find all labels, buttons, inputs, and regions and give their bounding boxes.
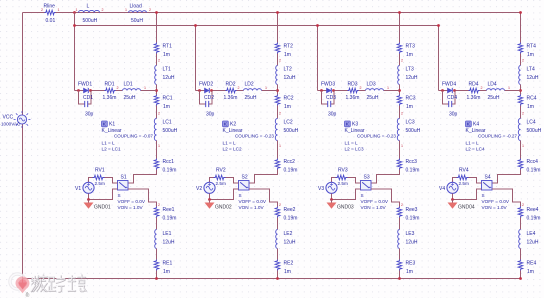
svg-text:VON = 1.0V: VON = 1.0V bbox=[118, 205, 144, 210]
resistor Rcc3 bbox=[397, 159, 402, 170]
wire drop cell 2 bbox=[195, 26, 197, 91]
wire S2 to Ree2 bbox=[249, 189, 278, 207]
svg-text:LE2: LE2 bbox=[284, 231, 293, 237]
diode FWD1 bbox=[84, 88, 89, 93]
wire left rail bbox=[22, 13, 24, 279]
svg-text:RV1: RV1 bbox=[95, 168, 105, 174]
junction diode cathode bbox=[453, 89, 456, 92]
wire S1 to Ree1 bbox=[128, 189, 157, 207]
watermark text (hand-drawn CJK strokes) bbox=[32, 276, 46, 292]
svg-text:RV4: RV4 bbox=[459, 168, 469, 174]
switch S2 bbox=[239, 181, 250, 191]
svg-text:LT2: LT2 bbox=[284, 67, 292, 73]
svg-text:500uH: 500uH bbox=[163, 128, 178, 134]
inductor LC1 bbox=[154, 119, 156, 141]
junction top rail cell 3 bbox=[398, 11, 401, 14]
resistor RV4 bbox=[457, 175, 469, 180]
svg-text:LE3: LE3 bbox=[406, 231, 415, 237]
svg-text:LC4: LC4 bbox=[527, 120, 536, 126]
svg-text:COUPLING = -0.07: COUPLING = -0.07 bbox=[114, 134, 153, 139]
svg-text:VON = 1.0V: VON = 1.0V bbox=[361, 205, 387, 210]
junction V4 ground bbox=[451, 198, 454, 201]
svg-text:0.19m: 0.19m bbox=[163, 216, 177, 222]
junction bottom rail cell 3 bbox=[398, 277, 401, 280]
junction rail2 cell 2 bbox=[194, 24, 197, 27]
svg-text:0.01: 0.01 bbox=[46, 18, 56, 24]
svg-text:S3: S3 bbox=[364, 175, 370, 181]
junction diode anode bbox=[198, 89, 201, 92]
svg-text:RD1: RD1 bbox=[105, 82, 115, 88]
svg-text:K4: K4 bbox=[473, 122, 479, 128]
svg-text:2: 2 bbox=[238, 86, 240, 90]
wire drop cell 1 bbox=[74, 13, 76, 91]
svg-text:1: 1 bbox=[387, 86, 389, 90]
inductor LT3 bbox=[398, 66, 400, 85]
inductor LD2 bbox=[244, 89, 262, 91]
junction diode cathode bbox=[210, 89, 213, 92]
resistor RE2 bbox=[275, 260, 280, 271]
svg-text:L1 = L: L1 = L bbox=[102, 141, 116, 146]
wire Rcc3 to switch S3 bbox=[361, 170, 400, 184]
resistor RE1 bbox=[154, 260, 159, 271]
wire distribution rail bbox=[75, 25, 439, 27]
svg-text:RC3: RC3 bbox=[406, 96, 416, 102]
svg-text:CD2: CD2 bbox=[204, 95, 214, 101]
svg-text:1m: 1m bbox=[284, 269, 291, 275]
junction bottom rail cell 2 bbox=[276, 277, 279, 280]
svg-text:Lload: Lload bbox=[130, 4, 142, 10]
svg-text:LD2: LD2 bbox=[245, 82, 254, 88]
ground GND03 bbox=[327, 200, 337, 209]
wire LC3-Rcc3 bbox=[399, 141, 401, 159]
svg-text:LT3: LT3 bbox=[406, 67, 414, 73]
resistor RV1 bbox=[93, 175, 105, 180]
junction FWD branch cell 1 bbox=[155, 89, 158, 92]
svg-text:25uH: 25uH bbox=[124, 95, 136, 101]
inductor LT2 bbox=[276, 66, 278, 85]
svg-text:25uH: 25uH bbox=[488, 95, 500, 101]
resistor Rcc4 bbox=[518, 159, 523, 170]
resistor RD2 bbox=[226, 88, 237, 93]
svg-text:S: S bbox=[239, 193, 242, 198]
resistor RD1 bbox=[105, 88, 116, 93]
wire column 2 top bbox=[277, 13, 279, 43]
svg-text:1m: 1m bbox=[406, 269, 413, 275]
wire drop cell 4 bbox=[438, 26, 440, 91]
wire capacitor loop bbox=[443, 91, 456, 105]
inductor LD3 bbox=[366, 89, 384, 91]
svg-text:S2: S2 bbox=[242, 175, 248, 181]
wire V2 top bbox=[210, 178, 214, 183]
svg-text:LD4: LD4 bbox=[488, 82, 497, 88]
wire RE2 to bottom rail bbox=[277, 271, 279, 279]
svg-text:RT1: RT1 bbox=[163, 44, 173, 50]
svg-text:1m: 1m bbox=[284, 52, 291, 58]
svg-text:2: 2 bbox=[522, 203, 524, 207]
svg-text:12uH: 12uH bbox=[406, 75, 418, 81]
junction diode anode bbox=[441, 89, 444, 92]
wire Ree4-LE4 bbox=[520, 218, 522, 230]
svg-text:CD1: CD1 bbox=[83, 95, 93, 101]
junction input node bbox=[73, 11, 76, 14]
svg-text:2: 2 bbox=[401, 203, 403, 207]
svg-text:RC1: RC1 bbox=[163, 96, 173, 102]
wire capacitor loop bbox=[200, 91, 213, 105]
svg-text:L2 = LC3: L2 = LC3 bbox=[345, 147, 365, 152]
svg-text:500uH: 500uH bbox=[284, 128, 299, 134]
svg-text:1m: 1m bbox=[163, 104, 170, 110]
svg-text:1: 1 bbox=[158, 144, 160, 148]
svg-text:500uH: 500uH bbox=[83, 18, 98, 24]
junction V3 ground bbox=[330, 198, 333, 201]
svg-text:S: S bbox=[118, 193, 121, 198]
inductor LC4 bbox=[518, 119, 520, 141]
junction diode anode bbox=[77, 89, 80, 92]
svg-text:S: S bbox=[482, 193, 485, 198]
resistor Rcc1 bbox=[154, 159, 159, 170]
svg-text:GND03: GND03 bbox=[337, 205, 354, 211]
svg-text:LE4: LE4 bbox=[527, 231, 536, 237]
svg-text:V1: V1 bbox=[75, 186, 81, 192]
svg-text:CD3: CD3 bbox=[326, 95, 336, 101]
svg-text:2: 2 bbox=[279, 112, 281, 116]
wire LE4-RE4 bbox=[520, 249, 522, 260]
wire LT2-node bbox=[277, 85, 279, 95]
svg-text:COUPLING = -0.27: COUPLING = -0.27 bbox=[478, 134, 517, 139]
svg-text:1: 1 bbox=[508, 86, 510, 90]
svg-text:CD4: CD4 bbox=[447, 95, 457, 101]
svg-text:V4: V4 bbox=[439, 186, 445, 192]
wire RC4-LC4 bbox=[520, 106, 522, 119]
wire Rcc1 to switch S1 bbox=[118, 170, 157, 184]
svg-text:LT1: LT1 bbox=[163, 67, 171, 73]
resistor RE3 bbox=[397, 260, 402, 271]
svg-text:RV2: RV2 bbox=[216, 168, 226, 174]
inductor LD1 bbox=[123, 89, 141, 91]
svg-text:0.19m: 0.19m bbox=[284, 216, 298, 222]
junction rail2 cell 3 bbox=[316, 24, 319, 27]
junction FWD branch cell 4 bbox=[519, 89, 522, 92]
wire FWD branch cell 2 bbox=[196, 90, 278, 92]
svg-text:FWD1: FWD1 bbox=[78, 82, 92, 88]
wire V3 minus to S3 bbox=[332, 189, 361, 200]
resistor Rline bbox=[45, 10, 56, 15]
svg-text:1000VAC: 1000VAC bbox=[1, 122, 21, 127]
junction top rail cell 2 bbox=[276, 11, 279, 14]
svg-text:L2 = LC1: L2 = LC1 bbox=[102, 147, 122, 152]
svg-text:12uH: 12uH bbox=[406, 240, 418, 246]
svg-text:2: 2 bbox=[360, 86, 362, 90]
resistor RV2 bbox=[214, 175, 226, 180]
svg-text:2: 2 bbox=[158, 203, 160, 207]
resistor RC2 bbox=[275, 95, 280, 106]
svg-text:1m: 1m bbox=[527, 269, 534, 275]
svg-text:1: 1 bbox=[125, 8, 127, 12]
svg-text:0.19m: 0.19m bbox=[527, 168, 541, 174]
svg-text:GND02: GND02 bbox=[215, 205, 232, 211]
junction diode anode bbox=[320, 89, 323, 92]
wire S3 to Ree3 bbox=[371, 189, 400, 207]
svg-text:Ree1: Ree1 bbox=[163, 207, 175, 213]
inductor LE1 bbox=[155, 230, 157, 249]
svg-text:RT4: RT4 bbox=[527, 44, 537, 50]
svg-text:Ree4: Ree4 bbox=[527, 207, 539, 213]
svg-text:VOFF = 0.0V: VOFF = 0.0V bbox=[118, 199, 146, 204]
diode FWD4 bbox=[448, 88, 453, 93]
svg-text:VOFF = 0.0V: VOFF = 0.0V bbox=[361, 199, 389, 204]
wire RE4 to bottom rail bbox=[520, 271, 522, 279]
svg-text:FWD3: FWD3 bbox=[321, 82, 335, 88]
junction bottom rail cell 4 bbox=[519, 277, 522, 280]
capacitor CD1 bbox=[85, 101, 88, 107]
voltage source V1 bbox=[83, 182, 94, 193]
svg-text:12uH: 12uH bbox=[284, 75, 296, 81]
wire LC2-Rcc2 bbox=[277, 141, 279, 159]
wire RT4-LT4 bbox=[520, 54, 522, 66]
svg-text:0.19m: 0.19m bbox=[406, 168, 420, 174]
svg-text:S4: S4 bbox=[485, 175, 491, 181]
svg-text:VON = 1.0V: VON = 1.0V bbox=[239, 205, 265, 210]
resistor RT2 bbox=[275, 43, 280, 54]
svg-text:K2: K2 bbox=[230, 122, 236, 128]
wire capacitor loop bbox=[79, 91, 92, 105]
coupling K4 icon bbox=[466, 121, 472, 127]
svg-text:0.19m: 0.19m bbox=[284, 168, 298, 174]
svg-text:1m: 1m bbox=[163, 52, 170, 58]
svg-text:2: 2 bbox=[401, 59, 403, 63]
svg-text:RD3: RD3 bbox=[348, 82, 358, 88]
coupling K3 icon bbox=[345, 121, 351, 127]
switch S4 bbox=[482, 181, 493, 191]
switch S3 bbox=[361, 181, 372, 191]
capacitor CD4 bbox=[449, 101, 452, 107]
junction V1 ground bbox=[87, 198, 90, 201]
svg-text:1.36m: 1.36m bbox=[103, 95, 117, 101]
svg-text:30p: 30p bbox=[328, 112, 337, 118]
svg-text:1: 1 bbox=[265, 86, 267, 90]
svg-text:Ree2: Ree2 bbox=[284, 207, 296, 213]
svg-text:RE3: RE3 bbox=[406, 261, 416, 267]
junction rail2 cell1 bbox=[73, 24, 76, 27]
svg-text:RE1: RE1 bbox=[163, 261, 173, 267]
wire Ree1-LE1 bbox=[156, 218, 158, 230]
voltage source VCC bbox=[14, 111, 31, 128]
resistor RT1 bbox=[154, 43, 159, 54]
svg-text:L2 = LC2: L2 = LC2 bbox=[223, 147, 243, 152]
svg-text:2.5m: 2.5m bbox=[459, 181, 470, 186]
svg-text:30p: 30p bbox=[85, 112, 94, 118]
svg-text:2: 2 bbox=[158, 59, 160, 63]
svg-text:2: 2 bbox=[117, 86, 119, 90]
svg-text:Rcc4: Rcc4 bbox=[527, 159, 539, 165]
svg-text:2: 2 bbox=[522, 59, 524, 63]
svg-text:FWD4: FWD4 bbox=[442, 82, 456, 88]
diode FWD3 bbox=[327, 88, 332, 93]
wire V3 top bbox=[332, 178, 336, 183]
resistor RD4 bbox=[469, 88, 480, 93]
junction top rail cell 4 bbox=[519, 11, 522, 14]
svg-text:0.19m: 0.19m bbox=[163, 168, 177, 174]
resistor Ree2 bbox=[275, 207, 280, 218]
svg-text:2.5m: 2.5m bbox=[95, 181, 106, 186]
svg-text:Rcc2: Rcc2 bbox=[284, 159, 296, 165]
wire top rail bbox=[23, 12, 521, 14]
svg-text:L1 = L: L1 = L bbox=[466, 141, 480, 146]
wire V1 top bbox=[89, 178, 93, 183]
svg-text:1m: 1m bbox=[406, 52, 413, 58]
wire LT1-node bbox=[156, 85, 158, 95]
svg-text:2: 2 bbox=[149, 8, 151, 12]
svg-text:2: 2 bbox=[522, 112, 524, 116]
svg-text:500uH: 500uH bbox=[527, 128, 542, 134]
svg-text:RE2: RE2 bbox=[284, 261, 294, 267]
wire RT2-LT2 bbox=[277, 54, 279, 66]
wire LE2-RE2 bbox=[277, 249, 279, 260]
svg-text:500uH: 500uH bbox=[406, 128, 421, 134]
diode FWD2 bbox=[205, 88, 210, 93]
inductor LE2 bbox=[276, 230, 278, 249]
svg-text:1m: 1m bbox=[163, 269, 170, 275]
wire LC1-Rcc1 bbox=[156, 141, 158, 159]
svg-text:1.36m: 1.36m bbox=[467, 95, 481, 101]
svg-text:RD4: RD4 bbox=[469, 82, 479, 88]
wire RT1-LT1 bbox=[156, 54, 158, 66]
svg-text:0.19m: 0.19m bbox=[406, 216, 420, 222]
svg-text:2: 2 bbox=[41, 8, 43, 12]
svg-text:12uH: 12uH bbox=[163, 240, 175, 246]
wire V4 top bbox=[453, 178, 457, 183]
watermark logo bbox=[10, 274, 30, 297]
svg-text:GND01: GND01 bbox=[94, 205, 111, 211]
svg-text:L1 = L: L1 = L bbox=[223, 141, 237, 146]
resistor RC1 bbox=[154, 95, 159, 106]
wire Ree3-LE3 bbox=[399, 218, 401, 230]
svg-text:1: 1 bbox=[58, 8, 60, 12]
wire LT4-node bbox=[520, 85, 522, 95]
wire V1 minus to S1 bbox=[89, 189, 118, 200]
svg-text:12uH: 12uH bbox=[284, 240, 296, 246]
voltage source V4 bbox=[447, 182, 458, 193]
junction diode cathode bbox=[332, 89, 335, 92]
svg-text:GND04: GND04 bbox=[458, 205, 475, 211]
inductor LC2 bbox=[275, 119, 277, 141]
capacitor CD3 bbox=[328, 101, 331, 107]
inductor LC3 bbox=[397, 119, 399, 141]
svg-text:LD3: LD3 bbox=[367, 82, 376, 88]
inductor LT4 bbox=[519, 66, 521, 85]
svg-text:Rline: Rline bbox=[44, 4, 56, 10]
wire RV1 to S1 bbox=[105, 178, 118, 184]
svg-text:RT2: RT2 bbox=[284, 44, 294, 50]
svg-text:VOFF = 0.0V: VOFF = 0.0V bbox=[239, 199, 267, 204]
svg-text:2: 2 bbox=[158, 112, 160, 116]
resistor RC4 bbox=[518, 95, 523, 106]
svg-text:2: 2 bbox=[279, 59, 281, 63]
resistor Ree1 bbox=[154, 207, 159, 218]
inductor LE3 bbox=[398, 230, 400, 249]
wire column 4 top bbox=[520, 13, 522, 43]
svg-text:1m: 1m bbox=[284, 104, 291, 110]
svg-text:LC3: LC3 bbox=[406, 120, 415, 126]
coupling K2 icon bbox=[223, 121, 229, 127]
junction bottom rail cell 1 bbox=[155, 277, 158, 280]
coupling K1 icon bbox=[102, 121, 108, 127]
svg-text:L: L bbox=[87, 4, 90, 10]
wire RV4 to S4 bbox=[469, 178, 482, 184]
wire bottom rail bbox=[23, 278, 521, 280]
svg-text:RC4: RC4 bbox=[527, 96, 537, 102]
svg-text:L2 = LC4: L2 = LC4 bbox=[466, 147, 486, 152]
wire LE3-RE3 bbox=[399, 249, 401, 260]
svg-text:LC2: LC2 bbox=[284, 120, 293, 126]
wire Ree2-LE2 bbox=[277, 218, 279, 230]
wire FWD branch cell 3 bbox=[318, 90, 400, 92]
svg-text:LD1: LD1 bbox=[124, 82, 133, 88]
ground GND02 bbox=[205, 200, 215, 209]
wire column 3 top bbox=[399, 13, 401, 43]
svg-text:Rcc1: Rcc1 bbox=[163, 159, 175, 165]
wire FWD branch cell 1 bbox=[75, 90, 157, 92]
junction diode cathode bbox=[89, 89, 92, 92]
svg-text:FWD2: FWD2 bbox=[199, 82, 213, 88]
svg-text:LE1: LE1 bbox=[163, 231, 172, 237]
resistor Ree4 bbox=[518, 207, 523, 218]
capacitor CD2 bbox=[206, 101, 209, 107]
wire RV2 to S2 bbox=[226, 178, 239, 184]
svg-text:0.19m: 0.19m bbox=[527, 216, 541, 222]
svg-text:RD2: RD2 bbox=[226, 82, 236, 88]
ground 0 bbox=[18, 279, 29, 297]
junction FWD branch cell 3 bbox=[398, 89, 401, 92]
svg-text:2: 2 bbox=[401, 112, 403, 116]
svg-text:1: 1 bbox=[76, 8, 78, 12]
svg-text:2: 2 bbox=[481, 86, 483, 90]
wire drop cell 3 bbox=[317, 26, 319, 91]
wire RT3-LT3 bbox=[399, 54, 401, 66]
svg-text:S: S bbox=[361, 193, 364, 198]
svg-text:1: 1 bbox=[279, 144, 281, 148]
resistor Rcc2 bbox=[275, 159, 280, 170]
junction rail2 cell 4 bbox=[437, 24, 440, 27]
wire RE3 to bottom rail bbox=[399, 271, 401, 279]
svg-text:1: 1 bbox=[522, 144, 524, 148]
svg-text:COUPLING = -0.23: COUPLING = -0.23 bbox=[235, 134, 274, 139]
wire RC2-LC2 bbox=[277, 106, 279, 119]
resistor RE4 bbox=[518, 260, 523, 271]
svg-text:2.5m: 2.5m bbox=[338, 181, 349, 186]
wire RE1 to bottom rail bbox=[156, 271, 158, 279]
svg-text:2: 2 bbox=[279, 203, 281, 207]
svg-text:LC1: LC1 bbox=[163, 120, 172, 126]
svg-text:RC2: RC2 bbox=[284, 96, 294, 102]
resistor RV3 bbox=[336, 175, 348, 180]
svg-text:1m: 1m bbox=[527, 52, 534, 58]
svg-text:30p: 30p bbox=[206, 112, 215, 118]
wire Rcc4 to switch S4 bbox=[482, 170, 521, 184]
wire FWD branch cell 4 bbox=[439, 90, 521, 92]
ground GND04 bbox=[448, 200, 458, 209]
wire Rcc2 to switch S2 bbox=[239, 170, 278, 184]
svg-text:25uH: 25uH bbox=[367, 95, 379, 101]
wire LE1-RE1 bbox=[156, 249, 158, 260]
svg-text:12uH: 12uH bbox=[527, 75, 539, 81]
svg-text:25uH: 25uH bbox=[245, 95, 257, 101]
svg-text:LT4: LT4 bbox=[527, 67, 535, 73]
svg-text:1.36m: 1.36m bbox=[346, 95, 360, 101]
wire LC4-Rcc4 bbox=[520, 141, 522, 159]
svg-text:1: 1 bbox=[144, 86, 146, 90]
resistor RD3 bbox=[348, 88, 359, 93]
